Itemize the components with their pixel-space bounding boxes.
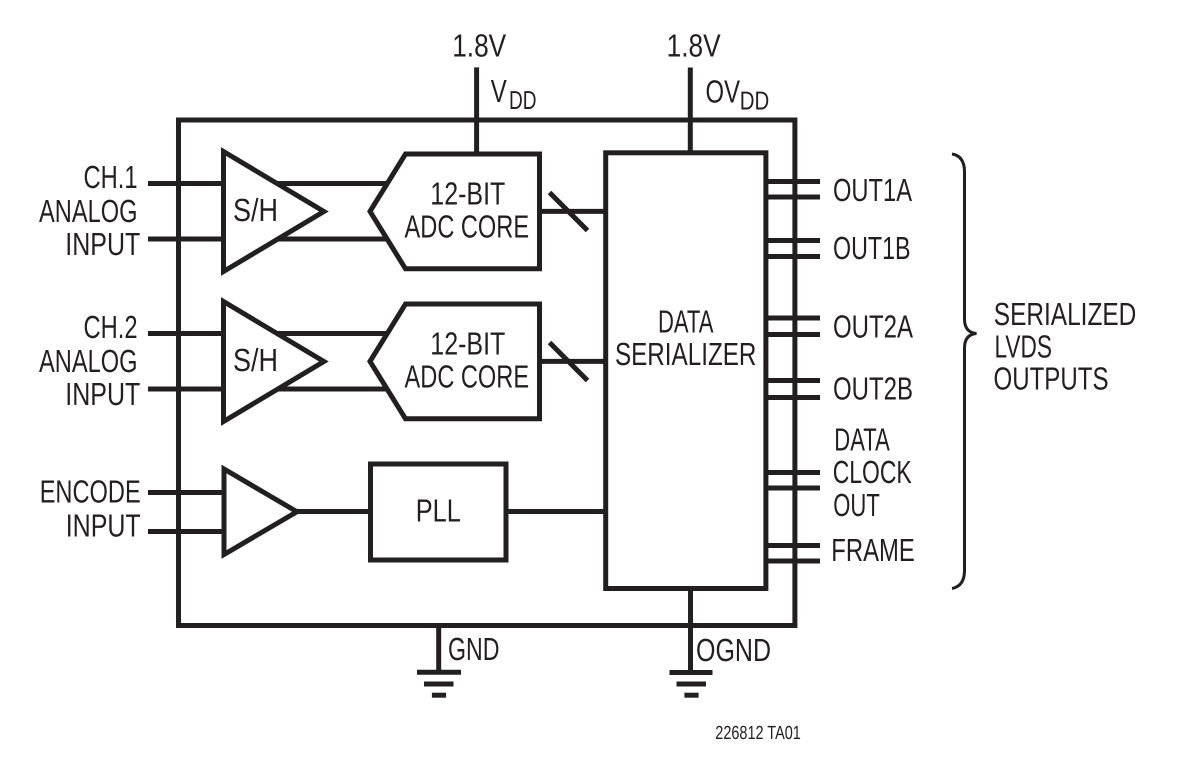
svg-text:12-BIT: 12-BIT [430,326,505,362]
svg-text:V: V [491,73,507,109]
wire CH.2 input minus [148,387,395,392]
svg-text:DATA: DATA [834,422,890,458]
svg-text:ADC CORE: ADC CORE [405,358,530,394]
svg-text:OUT1A: OUT1A [833,172,912,208]
svg-text:OUT2B: OUT2B [833,371,913,407]
ground symbol GND [417,672,461,695]
svg-text:12-BIT: 12-BIT [430,176,505,212]
wire ENCODE input minus [148,529,240,534]
svg-text:OGND: OGND [696,632,771,668]
svg-text:CH.1: CH.1 [84,159,138,195]
wire OUT2A pair line 1 [766,316,820,321]
block PLL [371,464,507,560]
wire ENCODE input plus [148,490,240,495]
wire OUT2B pair line 2 [766,395,820,400]
svg-text:1.8V: 1.8V [667,28,722,64]
outer chip boundary box [179,120,795,626]
svg-text:ADC CORE: ADC CORE [405,208,530,244]
wire OUT1B pair line 1 [766,238,820,243]
svg-text:INPUT: INPUT [65,226,140,262]
svg-text:OUTPUTS: OUTPUTS [994,360,1109,396]
wire VDD supply stub [474,67,479,160]
wire DATA CLOCK OUT pair line 1 [766,470,820,475]
block 12-BIT ADC CORE 1 [370,154,540,269]
wire CH.1 input plus [148,181,395,186]
encode buffer triangle [224,469,297,555]
amplifier S/H 1 triangle [224,152,324,272]
wire OUT1B pair line 2 [766,254,820,259]
svg-text:PLL: PLL [416,493,461,529]
wire OVDD supply stub [688,68,693,161]
svg-text:SERIALIZED: SERIALIZED [994,296,1137,332]
svg-text:CLOCK: CLOCK [833,454,912,490]
wire CH.2 input plus [148,331,395,336]
svg-text:LVDS: LVDS [995,329,1053,365]
svg-text:226812 TA01: 226812 TA01 [715,723,801,744]
svg-text:S/H: S/H [233,192,278,228]
svg-text:S/H: S/H [233,342,278,378]
wire FRAME pair line 2 [766,559,820,564]
svg-text:ANALOG: ANALOG [39,343,138,379]
svg-text:DD: DD [509,85,537,115]
bus slash 1 [550,193,588,231]
svg-text:GND: GND [448,631,500,667]
svg-text:OUT: OUT [833,487,880,523]
wire CH.1 input minus [148,237,395,242]
wire OGND stub [688,586,693,673]
svg-text:ANALOG: ANALOG [39,193,138,229]
svg-text:OUT1B: OUT1B [833,230,911,266]
brace serialized LVDS outputs [952,154,977,589]
wire DATA CLOCK OUT pair line 2 [766,486,820,491]
wire FRAME pair line 1 [766,543,820,548]
svg-text:DD: DD [740,86,770,116]
svg-text:OV: OV [706,74,741,110]
wire GND stub [436,623,441,672]
svg-text:OUT2A: OUT2A [833,308,913,344]
ground symbol OGND [670,673,713,696]
wire ADC2 bus to serializer [539,359,609,364]
svg-text:1.8V: 1.8V [452,27,507,63]
svg-text:CH.2: CH.2 [84,309,138,345]
wire OUT1A pair line 2 [766,195,820,200]
svg-text:ENCODE: ENCODE [40,474,141,510]
wire ADC1 bus to serializer [539,209,609,214]
svg-text:DATA: DATA [658,304,714,340]
svg-text:SERIALIZER: SERIALIZER [615,336,757,372]
block 12-BIT ADC CORE 2 [370,304,540,419]
amplifier S/H 2 triangle [224,302,324,422]
svg-text:FRAME: FRAME [831,532,915,568]
wire OUT2A pair line 2 [766,332,820,337]
wire OUT1A pair line 1 [766,179,820,184]
svg-text:INPUT: INPUT [66,508,141,544]
wire encode buffer to PLL [294,509,374,514]
wire OUT2B pair line 1 [766,378,820,383]
bus slash 2 [550,343,588,381]
svg-text:INPUT: INPUT [65,376,140,412]
block DATA SERIALIZER [606,153,766,589]
wire PLL to serializer [506,509,608,514]
